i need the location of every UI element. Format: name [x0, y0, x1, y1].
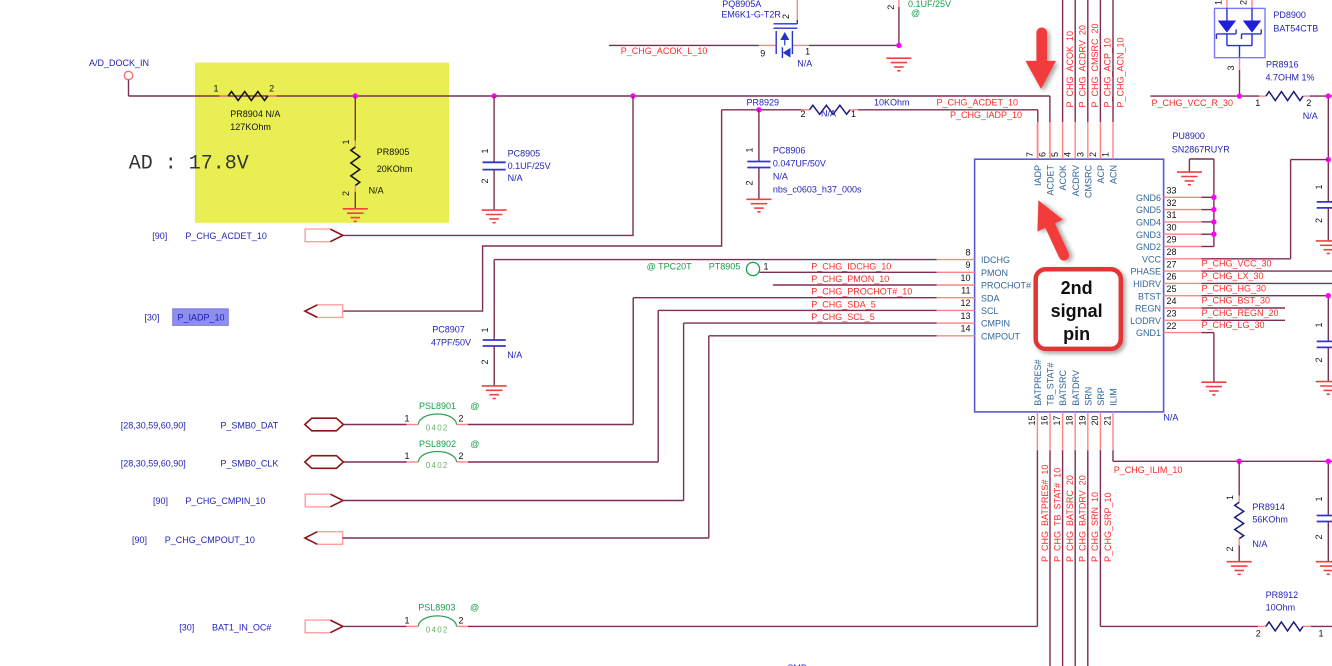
wire P_CHG_BST_30 — [1201, 295, 1328, 297]
wire P_CHG_BATDRV_20 (vertical) — [1074, 450, 1076, 666]
pins top (7..1) IADP..ACN — [1025, 122, 1119, 198]
wire ACDET branch — [343, 96, 633, 235]
svg-text:P_CHG_ACDET_10: P_CHG_ACDET_10 — [185, 231, 267, 241]
wire pin12 (P_CHG_SDA_5) — [658, 310, 936, 462]
svg-text:10: 10 — [960, 273, 970, 283]
ground (PC8907) — [482, 386, 507, 399]
capacitor PC8907 — [431, 325, 522, 386]
capacitor PC8906 — [745, 110, 862, 200]
svg-text:P_CHG_ACDET_10: P_CHG_ACDET_10 — [937, 97, 1019, 107]
ground (PC8905) — [482, 210, 507, 223]
capacitor C-right-1 — [1314, 184, 1332, 240]
svg-text:1: 1 — [1101, 152, 1111, 157]
svg-text:@: @ — [470, 401, 479, 411]
svg-text:P_CHG_VCC_R_30: P_CHG_VCC_R_30 — [1152, 98, 1234, 108]
svg-text:4.7OHM 1%: 4.7OHM 1% — [1266, 73, 1315, 83]
svg-text:1: 1 — [1314, 184, 1324, 189]
svg-text:P_CHG_LG_30: P_CHG_LG_30 — [1202, 320, 1265, 330]
svg-text:N/A: N/A — [797, 59, 812, 69]
svg-text:GND6: GND6 — [1136, 193, 1161, 203]
junction A (PR8905 tap) — [353, 93, 358, 98]
net label P_CHG_SDA_5 — [811, 299, 876, 309]
svg-text:P_CHG_BATSRC_20: P_CHG_BATSRC_20 — [1065, 475, 1075, 562]
svg-text:27: 27 — [1167, 259, 1177, 269]
svg-text:PC8905: PC8905 — [508, 148, 541, 158]
svg-text:2: 2 — [1239, 0, 1249, 5]
svg-text:56KOhm: 56KOhm — [1252, 515, 1288, 525]
wire P_CHG_SRP_10 net — [1100, 450, 1332, 626]
svg-text:1: 1 — [805, 47, 810, 57]
svg-text:2: 2 — [341, 191, 351, 196]
pins left (8..14) IDCHG..CMPOUT — [937, 247, 1031, 341]
wire P_CHG_ACP_10 (vertical) — [1099, 0, 1101, 122]
svg-text:P_SMB0_CLK: P_SMB0_CLK — [220, 459, 278, 469]
capacitor value 0.1UF/25V (cut) — [886, 0, 951, 18]
net label P_CHG_SRN_10 — [1090, 492, 1100, 562]
ground (PQ8905A) — [886, 58, 911, 71]
svg-text:HIDRV: HIDRV — [1133, 279, 1161, 289]
svg-text:2: 2 — [1225, 546, 1235, 551]
net label P_CHG_TB_STAT#_10 — [1052, 468, 1062, 562]
svg-text:1: 1 — [404, 451, 409, 461]
svg-text:IDCHG: IDCHG — [981, 255, 1010, 265]
test point PT8905 — [647, 261, 769, 275]
svg-text:1: 1 — [404, 615, 409, 625]
net label P_CHG_VCC_30 — [1202, 259, 1272, 269]
svg-text:P_CHG_BATPRES#_10: P_CHG_BATPRES#_10 — [1040, 465, 1050, 562]
svg-text:ACN: ACN — [1109, 165, 1119, 184]
wire P_CHG_ACOK_L_10 net — [609, 0, 899, 45]
svg-text:PC8907: PC8907 — [432, 325, 465, 335]
svg-text:1: 1 — [1314, 496, 1324, 501]
svg-text:18: 18 — [1065, 416, 1075, 426]
wire P_CHG_TB_STAT#_10 (vertical) — [1049, 450, 1051, 666]
svg-text:PR8914: PR8914 — [1252, 502, 1285, 512]
svg-text:TB_STAT#: TB_STAT# — [1046, 363, 1056, 406]
svg-text:3: 3 — [1075, 152, 1085, 157]
wire P_SMB0_CLK net — [343, 461, 658, 463]
net label SMB (cut at edge) — [787, 663, 807, 666]
net label P_CHG_ACDET_10 (top) — [937, 97, 1019, 107]
junction I (BST) — [1326, 293, 1331, 298]
svg-text:0402: 0402 — [426, 626, 449, 635]
svg-text:2nd: 2nd — [1061, 278, 1093, 298]
svg-text:P_CHG_PMON_10: P_CHG_PMON_10 — [811, 274, 889, 284]
inductor PSL8903 — [404, 603, 479, 635]
wire P_CHG_BATSRC_20 (vertical) — [1062, 450, 1064, 666]
svg-text:@: @ — [470, 439, 479, 449]
svg-text:P_CHG_SDA_5: P_CHG_SDA_5 — [811, 299, 876, 309]
highlight region (yellow) — [195, 63, 449, 223]
svg-text:33: 33 — [1167, 186, 1177, 196]
svg-text:2: 2 — [458, 615, 463, 625]
svg-text:16: 16 — [1040, 416, 1050, 426]
svg-text:P_CHG_ACDRV_20: P_CHG_ACDRV_20 — [1078, 25, 1088, 107]
svg-text:15: 15 — [1027, 416, 1037, 426]
junction F (diode tap) — [1237, 93, 1242, 98]
wire pin9 (P_CHG_IDCHG_10) — [760, 271, 937, 273]
svg-text:GND4: GND4 — [1136, 218, 1161, 228]
svg-text:@: @ — [911, 8, 920, 18]
svg-text:P_CHG_REGN_20: P_CHG_REGN_20 — [1202, 308, 1279, 318]
wire IADP net — [342, 110, 1037, 311]
junction GND5 — [1211, 207, 1216, 212]
svg-text:[28,30,59,60,90]: [28,30,59,60,90] — [121, 421, 186, 431]
svg-text:LODRV: LODRV — [1130, 316, 1161, 326]
svg-text:[28,30,59,60,90]: [28,30,59,60,90] — [121, 459, 186, 469]
svg-text:28: 28 — [1167, 247, 1177, 257]
junction GND6 — [1211, 195, 1216, 200]
svg-text:IADP: IADP — [1033, 165, 1043, 186]
svg-text:2: 2 — [269, 84, 274, 94]
port A/D_DOCK_IN — [89, 58, 149, 96]
svg-text:3: 3 — [1226, 65, 1236, 70]
svg-text:0402: 0402 — [426, 423, 449, 432]
svg-text:@ TPC20T: @ TPC20T — [647, 261, 692, 271]
svg-text:SDA: SDA — [981, 293, 1000, 303]
wire P_CHG_ACOK_10 (vertical) — [1062, 0, 1064, 122]
svg-text:1: 1 — [1225, 495, 1235, 500]
net label P_CHG_BST_30 — [1202, 296, 1271, 306]
capacitor C-right-3 — [1314, 461, 1332, 561]
svg-text:PR8929: PR8929 — [747, 98, 780, 108]
svg-text:[90]: [90] — [152, 231, 167, 241]
svg-text:7: 7 — [1025, 152, 1035, 157]
svg-text:GND2: GND2 — [1136, 242, 1161, 252]
svg-text:P_CHG_ILIM_10: P_CHG_ILIM_10 — [1114, 465, 1183, 475]
svg-text:PT8905: PT8905 — [709, 261, 741, 271]
svg-text:N/A: N/A — [1163, 413, 1178, 423]
svg-text:N/A: N/A — [1252, 539, 1267, 549]
svg-text:REGN: REGN — [1135, 304, 1161, 314]
svg-text:[30]: [30] — [144, 313, 159, 323]
net label P_CHG_BATSRC_20 — [1065, 475, 1075, 562]
inductor PSL8902 — [404, 439, 479, 470]
wire pin11 (P_CHG_PROCHOT#_10) — [633, 298, 936, 425]
net label P_CHG_PMON_10 — [811, 274, 889, 284]
svg-text:P_CHG_SCL_5: P_CHG_SCL_5 — [811, 312, 875, 322]
annotation arrow 2 (up-left) — [1026, 194, 1079, 266]
svg-text:2: 2 — [1314, 218, 1324, 223]
svg-text:P_CHG_LX_30: P_CHG_LX_30 — [1202, 271, 1264, 281]
svg-text:P_CHG_BST_30: P_CHG_BST_30 — [1202, 296, 1271, 306]
svg-text:2: 2 — [480, 178, 490, 183]
wire P_CHG_HG_30 — [1201, 282, 1332, 284]
junction G (right rail top) — [1326, 93, 1331, 98]
svg-text:P_CHG_CMPIN_10: P_CHG_CMPIN_10 — [185, 496, 265, 506]
wire P_CHG_ILIM_10 — [1113, 450, 1332, 461]
wire P_CHG_CMPIN_10 net — [343, 500, 684, 502]
svg-text:0.1UF/25V: 0.1UF/25V — [508, 161, 551, 171]
svg-text:P_CHG_SRP_10: P_CHG_SRP_10 — [1103, 492, 1113, 562]
net label P_CHG_ACOK_10 — [1065, 31, 1075, 108]
wire pin8 IDCHG to PC8907 — [494, 260, 936, 340]
svg-text:2: 2 — [458, 451, 463, 461]
svg-text:12: 12 — [960, 298, 970, 308]
svg-text:1: 1 — [1314, 322, 1324, 327]
wire P_CHG_VCC_30 — [1201, 160, 1328, 259]
net label P_CHG_ILIM_10 — [1114, 465, 1183, 475]
svg-text:32: 32 — [1167, 198, 1177, 208]
svg-text:BATDRV: BATDRV — [1071, 370, 1081, 406]
ground (PR8914) — [1227, 562, 1252, 575]
svg-text:P_CHG_IADP_10: P_CHG_IADP_10 — [950, 110, 1022, 120]
port P_SMB0_CLK — [121, 456, 344, 469]
svg-text:GND5: GND5 — [1136, 205, 1161, 215]
svg-text:2: 2 — [745, 180, 755, 185]
svg-text:BTST: BTST — [1138, 291, 1162, 301]
wire P_CHG_LG_30 — [1201, 319, 1285, 321]
svg-text:0.047UF/50V: 0.047UF/50V — [773, 159, 826, 169]
junction E (cap/gnd tap) — [896, 43, 901, 48]
svg-text:29: 29 — [1167, 235, 1177, 245]
svg-text:SN2867RUYR: SN2867RUYR — [1172, 144, 1231, 154]
net label P_CHG_ACOK_L_10 — [621, 46, 708, 56]
svg-text:P_SMB0_DAT: P_SMB0_DAT — [220, 421, 278, 431]
svg-text:19: 19 — [1077, 416, 1087, 426]
svg-text:AD : 17.8V: AD : 17.8V — [129, 153, 249, 176]
svg-text:PR8916: PR8916 — [1266, 59, 1299, 69]
wire pin14 CMPOUT — [709, 336, 937, 538]
svg-text:1: 1 — [404, 414, 409, 424]
svg-text:1: 1 — [480, 327, 490, 332]
svg-text:P_CHG_BATDRV_20: P_CHG_BATDRV_20 — [1078, 475, 1088, 562]
svg-text:1: 1 — [851, 109, 856, 119]
svg-text:GND3: GND3 — [1136, 230, 1161, 240]
junction C (ACDET branch) — [630, 93, 635, 98]
svg-text:P_CHG_ACOK_10: P_CHG_ACOK_10 — [1065, 31, 1075, 108]
ground (C-right-1) — [1316, 241, 1332, 254]
svg-text:1: 1 — [1255, 98, 1260, 108]
svg-text:P_CHG_ACOK_L_10: P_CHG_ACOK_L_10 — [621, 46, 708, 56]
svg-text:P_CHG_PROCHOT#_10: P_CHG_PROCHOT#_10 — [811, 287, 912, 297]
port BAT1_IN_OC# — [179, 620, 343, 633]
svg-text:2: 2 — [1256, 629, 1261, 639]
port P_CHG_CMPOUT_10 — [132, 532, 343, 545]
svg-text:10KOhm: 10KOhm — [874, 98, 910, 108]
svg-text:ACDET: ACDET — [1046, 165, 1056, 196]
svg-text:PR8912: PR8912 — [1266, 590, 1299, 600]
svg-text:SRP: SRP — [1096, 387, 1106, 406]
svg-text:1: 1 — [1214, 0, 1224, 5]
svg-text:20KOhm: 20KOhm — [377, 164, 413, 174]
svg-text:14: 14 — [960, 324, 970, 334]
svg-text:N/A: N/A — [1303, 111, 1318, 121]
net label P_CHG_VCC_R_30 — [1152, 98, 1234, 108]
svg-text:BAT1_IN_OC#: BAT1_IN_OC# — [212, 623, 271, 633]
svg-text:N/A: N/A — [508, 173, 523, 183]
svg-text:2: 2 — [480, 359, 490, 364]
svg-text:2: 2 — [886, 5, 896, 10]
svg-text:30: 30 — [1167, 222, 1177, 232]
wire pin10 (P_CHG_PMON_10) — [773, 284, 937, 286]
svg-text:PQ8905A: PQ8905A — [722, 0, 761, 9]
svg-text:BATPRES#: BATPRES# — [1033, 359, 1043, 405]
resistor PR8904 — [213, 84, 280, 133]
svg-text:PSL8903: PSL8903 — [418, 603, 455, 613]
capacitor C-right-2 — [1314, 296, 1332, 382]
svg-text:PROCHOT#: PROCHOT# — [981, 281, 1031, 291]
svg-text:N/A: N/A — [369, 186, 384, 196]
wire AD main net — [129, 96, 1050, 159]
svg-text:17: 17 — [1052, 416, 1062, 426]
capacitor PC8905 — [480, 96, 551, 210]
svg-text:ACDRV: ACDRV — [1071, 165, 1081, 196]
net label P_CHG_HG_30 — [1202, 283, 1267, 293]
ground (C-right-3) — [1316, 562, 1332, 575]
svg-text:P_CHG_TB_STAT#_10: P_CHG_TB_STAT#_10 — [1052, 468, 1062, 562]
svg-text:PSL8902: PSL8902 — [419, 439, 456, 449]
svg-text:1: 1 — [341, 139, 351, 144]
svg-text:25: 25 — [1167, 284, 1177, 294]
svg-text:PD8900: PD8900 — [1273, 10, 1306, 20]
svg-text:2: 2 — [458, 414, 463, 424]
wire P_CHG_REGN_20 — [1201, 307, 1285, 309]
port P_IADP_10 — [144, 305, 342, 326]
svg-text:VCC: VCC — [1142, 254, 1162, 264]
svg-text:SCL: SCL — [981, 306, 999, 316]
resistor PR8929 — [747, 98, 910, 119]
ground (PU8900 top) — [1177, 172, 1202, 185]
junction GND4 — [1211, 219, 1216, 224]
net label P_CHG_IADP_10 (top) — [950, 110, 1022, 120]
svg-text:P_CHG_IDCHG_10: P_CHG_IDCHG_10 — [811, 261, 891, 271]
net label P_CHG_BATPRES#_10 — [1040, 465, 1050, 562]
svg-text:1: 1 — [213, 84, 218, 94]
junction GND3 — [1211, 232, 1216, 237]
net label P_CHG_IDCHG_10 — [811, 261, 891, 271]
svg-text:ACOK: ACOK — [1058, 165, 1068, 191]
diode PD8900 — [1214, 0, 1319, 96]
svg-text:1: 1 — [764, 261, 769, 271]
wire pin13 (P_CHG_SCL_5) — [684, 323, 937, 500]
svg-text:GND1: GND1 — [1136, 328, 1161, 338]
svg-text:5: 5 — [1050, 152, 1060, 157]
junction J (PR8914 tap) — [1237, 459, 1242, 464]
resistor PR8905 — [341, 96, 412, 209]
port P_CHG_ACDET_10 — [152, 229, 343, 242]
svg-text:N/A: N/A — [507, 350, 522, 360]
svg-text:[30]: [30] — [179, 623, 194, 633]
svg-text:PMON: PMON — [981, 268, 1008, 278]
svg-text:4: 4 — [1063, 152, 1073, 157]
ground (GND1) — [1201, 382, 1226, 395]
junction B (PC8905 tap) — [491, 93, 496, 98]
net label P_CHG_LX_30 — [1202, 271, 1264, 281]
svg-text:21: 21 — [1103, 416, 1113, 426]
svg-text:1: 1 — [745, 147, 755, 152]
svg-text:26: 26 — [1167, 272, 1177, 282]
svg-text:P_CHG_ACP_10: P_CHG_ACP_10 — [1103, 38, 1113, 108]
wire GND1 — [1201, 333, 1214, 383]
svg-text:PR8905: PR8905 — [377, 147, 410, 157]
svg-text:2: 2 — [781, 14, 791, 19]
svg-text:31: 31 — [1167, 210, 1177, 220]
svg-text:CMSRC: CMSRC — [1083, 165, 1093, 198]
svg-text:[90]: [90] — [153, 496, 168, 506]
wire BAT1_IN_OC# net — [343, 450, 1038, 626]
resistor PR8912 — [1256, 590, 1324, 639]
svg-text:N/A: N/A — [821, 109, 836, 119]
svg-text:9: 9 — [965, 260, 970, 270]
svg-text:24: 24 — [1167, 296, 1177, 306]
annotation callout 2nd signal pin — [1036, 269, 1121, 349]
inductor PSL8901 — [404, 401, 479, 432]
svg-text:2: 2 — [1314, 534, 1324, 539]
net label P_CHG_CMSRC_20 — [1090, 23, 1100, 107]
svg-text:8: 8 — [965, 247, 970, 257]
svg-text:P_CHG_VCC_30: P_CHG_VCC_30 — [1202, 259, 1272, 269]
svg-text:N/A: N/A — [773, 172, 788, 182]
svg-text:0402: 0402 — [426, 461, 449, 470]
svg-text:EM6K1-G-T2R: EM6K1-G-T2R — [721, 9, 781, 19]
transistor PQ8905A — [721, 0, 812, 69]
wire P_CHG_ACN_10 (vertical) — [1112, 0, 1114, 122]
svg-text:BAT54CTB: BAT54CTB — [1273, 24, 1318, 34]
junction H (VCC feed) — [1326, 157, 1331, 162]
wire P_CHG_VCC_R_30 net — [1150, 96, 1332, 202]
net label P_CHG_ACP_10 — [1103, 38, 1113, 108]
svg-text:2: 2 — [1088, 152, 1098, 157]
svg-text:13: 13 — [960, 311, 970, 321]
net label P_CHG_LG_30 — [1202, 320, 1265, 330]
svg-text:A/D_DOCK_IN: A/D_DOCK_IN — [89, 58, 149, 68]
junction D (PC8906 tap) — [756, 107, 761, 112]
svg-text:2: 2 — [800, 109, 805, 119]
svg-text:1: 1 — [480, 148, 490, 153]
port P_SMB0_DAT — [121, 418, 344, 431]
svg-text:@: @ — [470, 603, 479, 613]
svg-text:PC8906: PC8906 — [773, 146, 806, 156]
port P_CHG_CMPIN_10 — [153, 494, 343, 507]
wire P_CHG_CMSRC_20 (vertical) — [1087, 0, 1089, 122]
wire P_CHG_ACDRV_20 (vertical) — [1074, 0, 1076, 122]
net label P_CHG_SCL_5 — [811, 312, 875, 322]
svg-text:23: 23 — [1167, 309, 1177, 319]
svg-text:1: 1 — [1318, 629, 1323, 639]
svg-text:9: 9 — [760, 48, 765, 58]
svg-text:22: 22 — [1167, 321, 1177, 331]
svg-text:10Ohm: 10Ohm — [1266, 602, 1296, 612]
svg-text:P_CHG_SRN_10: P_CHG_SRN_10 — [1090, 492, 1100, 562]
svg-text:BATSRC: BATSRC — [1058, 369, 1068, 405]
svg-text:2: 2 — [1306, 98, 1311, 108]
pins bottom (15..21) BATPRES#..ILIM — [1027, 359, 1119, 450]
svg-text:PHASE: PHASE — [1130, 267, 1161, 277]
svg-text:PSL8901: PSL8901 — [419, 401, 456, 411]
svg-text:PR8904 N/A: PR8904 N/A — [230, 109, 280, 119]
svg-text:nbs_c0603_h37_000s: nbs_c0603_h37_000s — [773, 185, 862, 195]
net label P_CHG_BATDRV_20 — [1078, 475, 1088, 562]
svg-text:ILIM: ILIM — [1109, 388, 1119, 406]
svg-text:signal: signal — [1051, 301, 1103, 321]
svg-text:47PF/50V: 47PF/50V — [431, 337, 471, 347]
resistor PR8914 — [1225, 461, 1288, 561]
wire P_SMB0_DAT net — [343, 424, 633, 426]
svg-text:P_CHG_HG_30: P_CHG_HG_30 — [1202, 283, 1267, 293]
svg-text:CMPOUT: CMPOUT — [981, 331, 1020, 341]
wire GND net (GND6..GND2) — [1189, 159, 1214, 247]
svg-text:P_IADP_10: P_IADP_10 — [178, 313, 225, 323]
svg-text:20: 20 — [1090, 416, 1100, 426]
svg-text:ACP: ACP — [1096, 165, 1106, 184]
svg-text:P_CHG_CMPOUT_10: P_CHG_CMPOUT_10 — [165, 535, 255, 545]
svg-text:11: 11 — [961, 286, 970, 296]
wire P_CHG_CMPOUT_10 net — [343, 537, 709, 539]
svg-text:P_CHG_CMSRC_20: P_CHG_CMSRC_20 — [1090, 23, 1100, 107]
net label P_CHG_ACN_10 — [1115, 37, 1125, 107]
svg-text:127KOhm: 127KOhm — [230, 122, 271, 132]
